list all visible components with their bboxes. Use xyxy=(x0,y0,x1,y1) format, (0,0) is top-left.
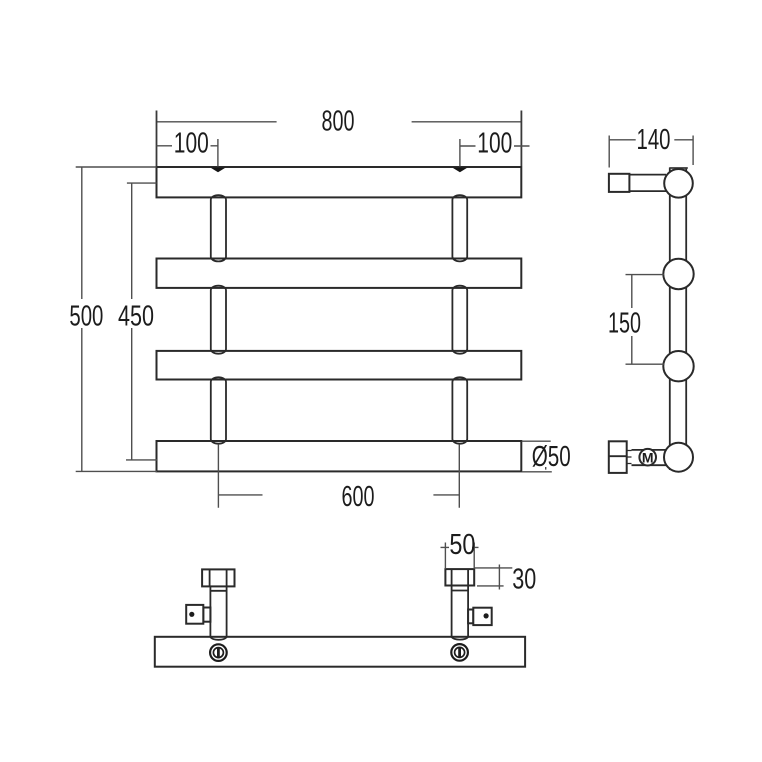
svg-text:30: 30 xyxy=(512,563,536,595)
svg-text:50: 50 xyxy=(449,529,475,561)
svg-text:800: 800 xyxy=(322,105,355,137)
svg-text:600: 600 xyxy=(342,481,375,513)
svg-text:M: M xyxy=(642,449,654,465)
svg-text:150: 150 xyxy=(608,308,641,340)
svg-text:100: 100 xyxy=(477,127,512,159)
svg-text:500: 500 xyxy=(69,300,103,332)
svg-text:450: 450 xyxy=(118,300,154,332)
svg-text:Ø50: Ø50 xyxy=(532,441,571,473)
svg-text:100: 100 xyxy=(174,127,209,159)
svg-text:140: 140 xyxy=(637,124,671,156)
